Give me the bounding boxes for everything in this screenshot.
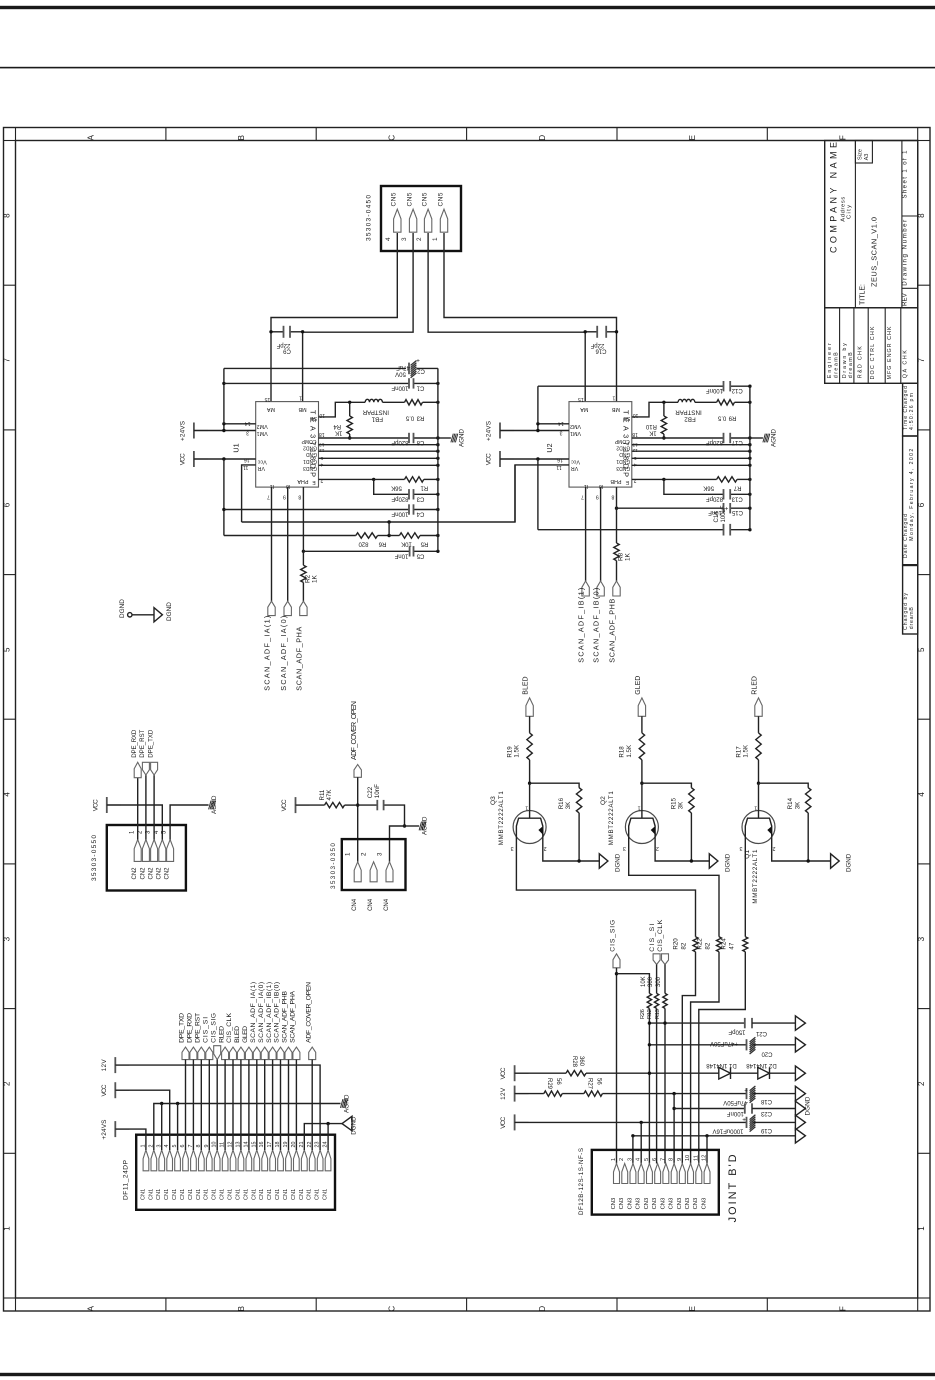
svg-text:CN1: CN1	[228, 1189, 234, 1200]
CN5 pin 3	[409, 209, 416, 232]
svg-text:3: 3	[2, 936, 11, 941]
ferrite bead FB2 INSTPAR	[632, 402, 678, 417]
svg-text:8: 8	[298, 493, 301, 499]
svg-text:PHB: PHB	[610, 478, 621, 484]
resistor R6 820	[224, 535, 356, 537]
svg-text:1.5K: 1.5K	[626, 744, 633, 758]
svg-text:SCAN_ADF_IA(0): SCAN_ADF_IA(0)	[258, 982, 265, 1043]
svg-text:4:50:26 pm: 4:50:26 pm	[909, 393, 915, 430]
resistor R9 0.5	[717, 400, 735, 405]
svg-text:SCAN_ADF_IA(1): SCAN_ADF_IA(1)	[263, 616, 272, 691]
svg-text:4: 4	[917, 792, 926, 797]
resistor R18 1.5K	[641, 716, 643, 733]
svg-text:DF12B-12S-1S-NF-S: DF12B-12S-1S-NF-S	[578, 1148, 585, 1215]
svg-text:CN1: CN1	[291, 1189, 297, 1200]
wire	[272, 1060, 274, 1150]
wire I0 U1	[287, 487, 289, 601]
svg-text:AGND: AGND	[211, 795, 218, 814]
svg-text:22pF: 22pF	[276, 342, 290, 348]
svg-text:2: 2	[773, 845, 776, 851]
svg-text:U1: U1	[232, 443, 241, 452]
resistor R7 56K	[632, 478, 664, 480]
svg-text:1K: 1K	[312, 574, 319, 583]
svg-text:18: 18	[632, 431, 638, 437]
capacitor C21 150pF row	[649, 1022, 744, 1024]
svg-text:R6: R6	[378, 540, 386, 546]
svg-text:R18: R18	[619, 746, 626, 758]
svg-text:R8: R8	[618, 552, 625, 561]
wire CN5 pin4 to U1 MA	[271, 233, 397, 402]
svg-text:CN2: CN2	[165, 867, 171, 880]
svg-text:CN3: CN3	[685, 1198, 691, 1210]
svg-text:CIS_SIG: CIS_SIG	[210, 1013, 217, 1043]
svg-text:1: 1	[299, 395, 302, 401]
svg-text:C: C	[387, 135, 396, 141]
svg-text:12: 12	[319, 447, 325, 453]
svg-text:12: 12	[702, 1155, 708, 1161]
svg-text:CN1: CN1	[212, 1189, 218, 1200]
power +24VS CN1	[114, 1121, 116, 1137]
svg-text:R24: R24	[720, 938, 727, 950]
svg-text:R26: R26	[640, 1009, 646, 1019]
svg-text:CIS_CLK: CIS_CLK	[657, 919, 664, 951]
svg-text:3K: 3K	[794, 801, 801, 809]
power VCC U1	[193, 451, 195, 467]
capacitor C1 100nF	[224, 382, 409, 384]
svg-text:CN1: CN1	[204, 1189, 210, 1200]
svg-text:Time Changed: Time Changed	[903, 386, 909, 430]
svg-text:SCAN_ADF_IA(0): SCAN_ADF_IA(0)	[279, 616, 288, 691]
CN1 pin 2	[151, 1150, 157, 1171]
svg-text:C3: C3	[416, 495, 424, 501]
svg-text:Drawing Number: Drawing Number	[902, 220, 909, 286]
svg-text:B: B	[237, 1306, 246, 1311]
svg-text:1: 1	[917, 1226, 926, 1231]
node DPE_TXD	[153, 775, 155, 840]
svg-text:12V: 12V	[500, 1087, 507, 1100]
svg-text:DPE_RST: DPE_RST	[195, 1013, 202, 1043]
node SCAN_ADF_IA(0)	[284, 601, 291, 615]
svg-text:A: A	[87, 134, 96, 140]
svg-text:CN5: CN5	[437, 192, 444, 206]
wire	[232, 1060, 234, 1150]
svg-text:SCAN_ADF_IA(1): SCAN_ADF_IA(1)	[250, 982, 257, 1043]
svg-text:2: 2	[2, 1081, 11, 1086]
svg-text:INSTPAR: INSTPAR	[362, 409, 389, 416]
svg-text:E: E	[688, 135, 697, 140]
svg-text:SB: SB	[310, 415, 318, 421]
svg-text:VM1: VM1	[257, 430, 268, 436]
wire CN5 pin2 to U2 MA	[428, 233, 585, 402]
connector CN1 DF11-24DP	[136, 1135, 335, 1210]
svg-text:9: 9	[596, 493, 599, 499]
wire	[240, 1060, 242, 1150]
svg-text:C13: C13	[731, 495, 743, 501]
svg-text:3: 3	[623, 845, 626, 851]
capacitor C9	[271, 331, 284, 333]
svg-text:CN3: CN3	[652, 1198, 658, 1210]
node SCAN_ADF_PHA CN1	[293, 1047, 300, 1060]
svg-text:E: E	[688, 1306, 697, 1311]
svg-text:CIS_SIG: CIS_SIG	[610, 920, 617, 952]
svg-text:10: 10	[685, 1155, 691, 1161]
svg-text:10K: 10K	[641, 976, 647, 987]
svg-text:CN1: CN1	[140, 1189, 146, 1200]
svg-text:Date Changed: Date Changed	[903, 514, 909, 558]
CN1 pin 6	[183, 1150, 189, 1171]
svg-text:8: 8	[611, 493, 614, 499]
CN5 pin 4	[394, 209, 401, 232]
CN1 pin 20	[294, 1150, 300, 1171]
svg-text:1000uF16V: 1000uF16V	[712, 1128, 743, 1134]
wire Q3 collector + resistor R20 82	[516, 844, 695, 937]
diode row D1 D2 1N4148	[514, 1065, 516, 1081]
svg-text:SCAN_ADF_IB(1): SCAN_ADF_IB(1)	[577, 588, 586, 663]
CN1 pin 24	[325, 1150, 331, 1171]
svg-text:R15: R15	[670, 797, 677, 809]
wire	[256, 1060, 258, 1150]
wire	[208, 1060, 210, 1150]
svg-text:100nF: 100nF	[391, 384, 408, 390]
svg-text:10K: 10K	[401, 540, 412, 546]
svg-text:CN1: CN1	[243, 1189, 249, 1200]
svg-text:VM1: VM1	[570, 430, 581, 436]
svg-text:C19: C19	[760, 1127, 772, 1133]
CN1 pin 5	[175, 1150, 181, 1171]
svg-text:300: 300	[656, 976, 662, 987]
svg-text:12V: 12V	[101, 1059, 108, 1072]
svg-text:SCAN_ADF_IB(0): SCAN_ADF_IB(0)	[274, 982, 281, 1043]
svg-text:7: 7	[267, 493, 270, 499]
ground AGND CN4	[403, 824, 406, 827]
svg-text:1K: 1K	[625, 552, 632, 561]
svg-text:CN3: CN3	[669, 1198, 675, 1210]
CN3 pin 6	[655, 1164, 661, 1184]
resistor R10 1K	[662, 401, 665, 404]
wire	[192, 1060, 194, 1150]
svg-text:CN5: CN5	[391, 192, 398, 206]
svg-text:DPE_RXD: DPE_RXD	[187, 1013, 194, 1043]
svg-text:CN3: CN3	[619, 1198, 625, 1210]
svg-text:Size: Size	[858, 149, 864, 160]
svg-text:AGND: AGND	[422, 816, 429, 835]
power VCC CN2	[106, 797, 108, 813]
svg-text:DGND: DGND	[614, 853, 621, 872]
svg-text:COMPANY NAME: COMPANY NAME	[829, 142, 839, 253]
svg-text:CIS_SI: CIS_SI	[202, 1017, 209, 1043]
resistor R3 0.5	[405, 400, 423, 405]
svg-text:82: 82	[704, 942, 711, 949]
node DPE_RST	[145, 775, 147, 840]
svg-text:PHA: PHA	[297, 478, 308, 484]
node SCAN_ADF_IB(1)	[582, 581, 589, 596]
svg-text:1: 1	[754, 805, 757, 811]
node BLED	[526, 698, 533, 716]
power +24VS U2	[499, 423, 501, 439]
svg-text:RLED: RLED	[752, 676, 759, 695]
ground DGND	[599, 854, 608, 868]
CN1 pin 21	[301, 1150, 307, 1171]
svg-text:COMP: COMP	[614, 438, 630, 444]
svg-text:R22: R22	[696, 938, 703, 950]
svg-text:AGND: AGND	[459, 429, 466, 447]
transistor Q1 MMBT2222ALT1	[742, 811, 775, 844]
svg-text:5: 5	[917, 647, 926, 652]
svg-text:2: 2	[361, 852, 368, 856]
wire GND	[319, 457, 438, 459]
svg-text:22pF: 22pF	[590, 342, 604, 348]
svg-text:BLED: BLED	[523, 676, 530, 694]
CN4 pin 3	[386, 862, 393, 882]
connector CN4 35303-0350	[342, 839, 406, 890]
ground DGND CN1	[304, 1124, 342, 1150]
svg-text:1.5K: 1.5K	[514, 744, 521, 758]
svg-text:CN1: CN1	[164, 1189, 170, 1200]
svg-text:+24VS: +24VS	[101, 1120, 108, 1140]
CN1 pin 16	[262, 1150, 268, 1171]
svg-text:1.5K: 1.5K	[743, 744, 750, 758]
CN3 pin 4	[638, 1164, 644, 1184]
capacitor C17 820pF	[632, 437, 724, 439]
svg-text:C20: C20	[761, 1050, 773, 1056]
svg-text:7: 7	[660, 1158, 666, 1161]
svg-text:+: +	[416, 356, 420, 363]
svg-text:+47uF50V: +47uF50V	[710, 1040, 738, 1046]
CN2 pin 5	[167, 840, 174, 862]
svg-text:B: B	[237, 135, 246, 140]
svg-text:1: 1	[638, 805, 641, 811]
ground AGND	[750, 437, 763, 439]
svg-text:FB2: FB2	[684, 416, 696, 423]
op-amp U2 TEA3718SDP	[569, 402, 632, 488]
svg-text:3K: 3K	[565, 801, 572, 809]
wire	[200, 1060, 202, 1150]
resistor R16 3K	[530, 783, 580, 788]
svg-text:Vcc: Vcc	[257, 459, 266, 465]
svg-text:R&D CHK: R&D CHK	[858, 346, 864, 378]
svg-text:FB1: FB1	[371, 416, 383, 423]
capacitor C12 100nF	[538, 385, 724, 387]
svg-text:BLED: BLED	[234, 1026, 241, 1043]
svg-text:DOC CTRL CHK: DOC CTRL CHK	[870, 326, 876, 379]
power VCC CN1	[114, 1082, 116, 1098]
svg-text:MMBT2222ALT1: MMBT2222ALT1	[498, 791, 505, 846]
svg-text:100uF: 100uF	[721, 505, 727, 522]
svg-text:R5: R5	[420, 540, 428, 546]
CN2 pin 1	[134, 840, 141, 862]
svg-text:4: 4	[385, 237, 392, 241]
svg-text:CN3: CN3	[627, 1198, 633, 1210]
svg-text:6: 6	[652, 1158, 658, 1161]
svg-text:COMP: COMP	[301, 438, 317, 444]
wire	[357, 777, 359, 862]
node CIS_SI + resistor R12 300	[653, 954, 660, 965]
svg-text:SCAN_ADF_IB(0): SCAN_ADF_IB(0)	[592, 588, 601, 663]
svg-text:GND2: GND2	[616, 445, 630, 451]
wire VR net	[242, 465, 515, 522]
svg-text:5: 5	[2, 647, 11, 652]
svg-text:100nF: 100nF	[706, 387, 723, 393]
svg-text:Address: Address	[841, 197, 847, 222]
svg-text:CN1: CN1	[283, 1189, 289, 1200]
wire emitter	[543, 844, 600, 862]
svg-text:C14: C14	[714, 511, 720, 523]
svg-text:56K: 56K	[391, 485, 402, 491]
svg-text:C22: C22	[367, 786, 374, 798]
svg-text:3: 3	[627, 1158, 633, 1161]
svg-text:VR: VR	[571, 465, 579, 471]
svg-text:3: 3	[917, 936, 926, 941]
CN1 pin 14	[246, 1150, 252, 1171]
svg-text:C2: C2	[417, 367, 425, 373]
capacitor C8 820pF	[319, 437, 410, 439]
12V row R29 R27	[514, 1086, 516, 1102]
svg-text:CN1: CN1	[156, 1189, 162, 1200]
svg-text:C5: C5	[416, 552, 424, 558]
svg-text:10nF: 10nF	[394, 552, 408, 558]
svg-text:A: A	[87, 1305, 96, 1311]
CN3 pin 12	[704, 1164, 710, 1184]
svg-text:56K: 56K	[703, 485, 714, 491]
capacitor C5 10nF	[302, 550, 305, 553]
svg-text:VCC: VCC	[500, 1116, 507, 1128]
svg-text:GND: GND	[619, 451, 631, 457]
CN1 pin 13	[238, 1150, 244, 1171]
svg-text:R20: R20	[672, 938, 679, 950]
svg-text:F: F	[839, 135, 848, 140]
svg-text:SCAN_ADF_IB(1): SCAN_ADF_IB(1)	[266, 982, 273, 1043]
svg-text:1: 1	[2, 1226, 11, 1231]
resistor R11 47K	[296, 804, 325, 806]
CN1 pin 17	[270, 1150, 276, 1171]
svg-text:820: 820	[358, 540, 369, 546]
capacitor C3 820pF	[374, 479, 409, 494]
capacitor C20 47uF 50V row	[649, 1044, 746, 1046]
svg-text:CN1: CN1	[148, 1189, 154, 1200]
svg-text:56: 56	[595, 1078, 601, 1085]
svg-text:MB: MB	[298, 406, 306, 412]
wire emitter	[772, 844, 831, 862]
wire	[500, 430, 569, 432]
svg-text:CN1: CN1	[251, 1189, 257, 1200]
svg-text:VCC: VCC	[486, 453, 493, 465]
svg-text:2: 2	[544, 845, 547, 851]
svg-text:8: 8	[669, 1158, 675, 1161]
node CIS_SIG CN1	[214, 1046, 221, 1060]
svg-text:CN1: CN1	[275, 1189, 281, 1200]
svg-text:7: 7	[2, 358, 11, 363]
capacitor C2 47uF 50V	[224, 367, 406, 369]
svg-text:3: 3	[740, 845, 743, 851]
svg-text:R7: R7	[733, 485, 741, 491]
svg-text:MMBT2222ALT1: MMBT2222ALT1	[752, 849, 759, 904]
node DPE_TXD CN1	[182, 1047, 189, 1060]
wire emitter	[655, 844, 709, 862]
wire +24VS to pin1	[115, 1129, 146, 1150]
capacitor C23 100nF row	[673, 1094, 675, 1164]
CN1 pin 19	[286, 1150, 292, 1171]
svg-text:1: 1	[612, 395, 615, 401]
CN1 pin 8	[199, 1150, 205, 1171]
node CIS_CLK + resistor R13 300	[662, 954, 669, 965]
svg-text:CN4: CN4	[352, 898, 358, 911]
wire	[295, 1060, 297, 1150]
svg-text:Q3: Q3	[490, 796, 497, 805]
svg-text:GND3: GND3	[616, 465, 630, 471]
wire	[288, 1060, 290, 1150]
CN1 pin 10	[214, 1150, 220, 1171]
CN3 pin 7	[663, 1164, 669, 1184]
svg-text:SCAN_ADF_PHA: SCAN_ADF_PHA	[295, 626, 304, 690]
node SCAN_ADF_IA(1)	[268, 601, 275, 615]
svg-text:47: 47	[728, 942, 735, 949]
node CIS_SIG	[613, 954, 620, 968]
power +24VS U1	[193, 423, 195, 439]
svg-text:Q2: Q2	[600, 796, 607, 805]
svg-text:GND: GND	[306, 451, 318, 457]
wire	[194, 430, 256, 432]
svg-text:CN5: CN5	[406, 192, 413, 206]
svg-text:CN1: CN1	[323, 1189, 329, 1200]
svg-text:MMBT2222ALT1: MMBT2222ALT1	[608, 791, 615, 846]
op-amp U1 TEA3718SDP	[256, 402, 319, 488]
svg-text:CN3: CN3	[660, 1198, 666, 1210]
svg-text:9: 9	[283, 493, 286, 499]
svg-text:VCC: VCC	[281, 799, 288, 811]
wire AGND rail U1	[437, 368, 439, 551]
svg-text:Drawn by: Drawn by	[842, 343, 848, 378]
svg-text:Monday, February 4, 2002: Monday, February 4, 2002	[909, 449, 915, 541]
capacitor C19 row VCC	[514, 1114, 516, 1130]
wire GND	[632, 444, 750, 446]
CN2 pin 4	[159, 840, 166, 862]
svg-text:C23: C23	[760, 1110, 772, 1116]
svg-text:R11: R11	[319, 789, 326, 800]
CN4 pin 1	[354, 862, 361, 882]
svg-text:VCC: VCC	[500, 1067, 507, 1079]
svg-text:CIS_CLK: CIS_CLK	[226, 1012, 233, 1042]
svg-text:VM2: VM2	[257, 423, 268, 429]
wire VCC leg U1	[223, 459, 225, 536]
svg-text:10nF: 10nF	[374, 784, 381, 798]
node DPE_RXD	[137, 778, 139, 840]
svg-text:R12: R12	[647, 1009, 653, 1019]
svg-text:1: 1	[611, 1158, 617, 1161]
svg-text:3: 3	[377, 852, 384, 856]
CN5 pin 2	[424, 209, 431, 232]
svg-text:C18: C18	[760, 1098, 772, 1104]
wire CN5 pin3 to U1 MB	[303, 233, 414, 402]
ground DGND	[709, 854, 718, 868]
ground AGND CN2	[170, 805, 209, 840]
svg-text:150pF: 150pF	[728, 1028, 745, 1034]
svg-text:AGND: AGND	[771, 429, 778, 447]
transistor Q2 MMBT2222ALT1	[625, 811, 658, 844]
svg-text:dreamB: dreamB	[848, 352, 854, 378]
CN1 pin 4	[167, 1150, 173, 1171]
connector CN5	[381, 186, 461, 251]
wire	[0, 6, 935, 9]
svg-text:3: 3	[401, 237, 408, 241]
wire GND	[319, 464, 438, 466]
node SCAN_ADF_IA(1) CN1	[253, 1047, 260, 1060]
CN1 pin 18	[278, 1150, 284, 1171]
wire	[224, 1060, 226, 1150]
CN1 pin 3	[159, 1150, 165, 1171]
resistor R19 1.5K	[529, 716, 531, 733]
svg-text:SCAN_ADF_PHA: SCAN_ADF_PHA	[290, 990, 297, 1042]
node DPE_RST CN1	[198, 1047, 205, 1060]
